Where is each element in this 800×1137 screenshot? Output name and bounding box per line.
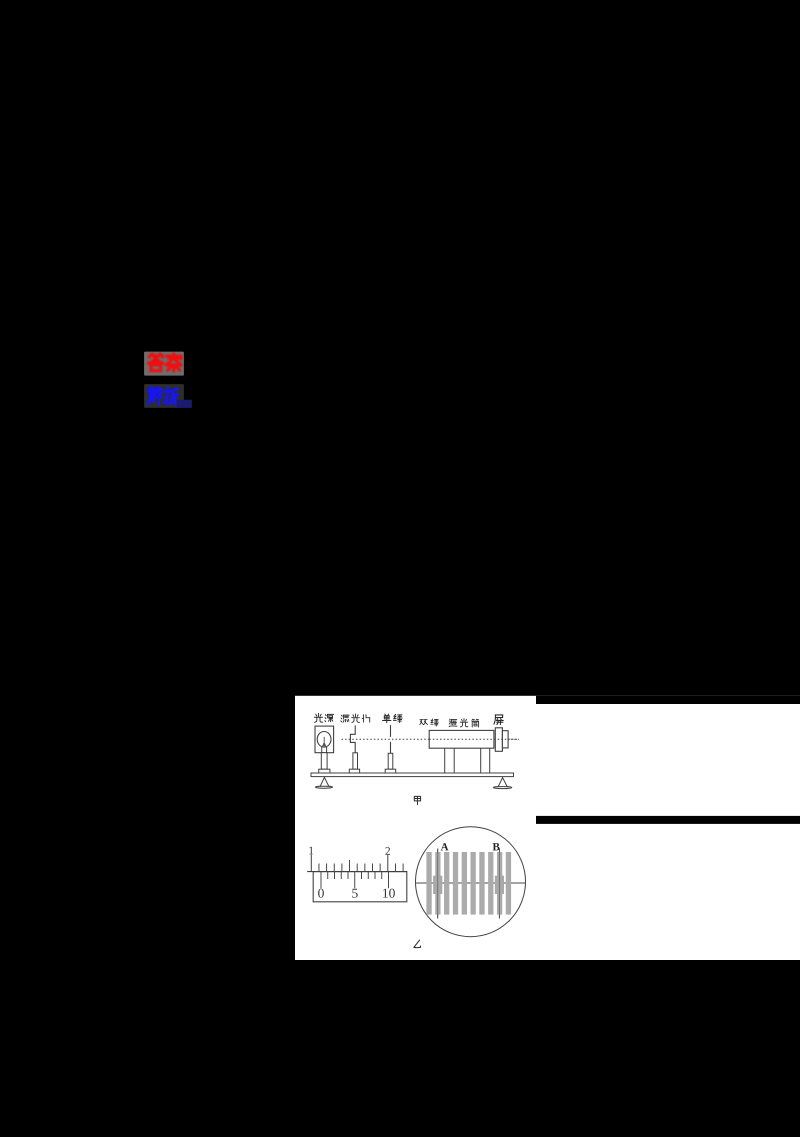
svg-text:0: 0 [318, 886, 325, 901]
ruler slider box [313, 872, 407, 902]
right foot pad [493, 786, 511, 788]
svg-text:A: A [441, 841, 449, 853]
main scale number 1 [308, 845, 314, 857]
bulb filament [322, 742, 327, 747]
black strip top-right of panel [536, 696, 800, 704]
eyepiece field circle [416, 827, 526, 937]
svg-text:5: 5 [352, 886, 359, 901]
analysis button blue text [148, 387, 179, 404]
vernier ticks [320, 872, 322, 889]
vernier number 10 [382, 886, 396, 901]
filter plate [350, 725, 355, 752]
label jia [414, 796, 420, 804]
main scale mm ticks [318, 864, 320, 872]
main scale tick 2cm tall [387, 855, 389, 872]
label guangyuan (light source) [314, 713, 322, 722]
answer button gray box [144, 352, 184, 376]
light source box [315, 726, 334, 753]
svg-text:2: 2 [385, 846, 391, 858]
optical axis dots over tube [429, 738, 519, 740]
slit stand base [385, 769, 396, 773]
label yi [414, 940, 421, 948]
vernier number 5 [352, 886, 359, 901]
vernier number 0 [318, 886, 325, 901]
svg-text:10: 10 [382, 886, 396, 901]
shield tube body [429, 730, 494, 748]
bulb neck [321, 747, 323, 753]
shield tube leg right [480, 748, 482, 773]
marker line A [437, 849, 439, 919]
label lüguangpian (filter) [341, 715, 349, 722]
filter stand column [353, 753, 358, 769]
light source bulb [317, 732, 331, 748]
single slit plate lower [390, 742, 392, 754]
single slit plate upper [390, 725, 392, 737]
marker blob A [433, 876, 442, 894]
analysis button dark box [144, 384, 184, 408]
screen end cap [502, 731, 508, 748]
main scale number 2 [385, 846, 391, 858]
ruler main scale line [307, 871, 407, 873]
label zheguangtong (shield tube) [449, 719, 457, 726]
main scale tick 1cm tall [310, 855, 312, 872]
label B [493, 841, 501, 853]
answer button red text [148, 354, 181, 371]
navy tab [177, 400, 192, 408]
interference fringes [426, 852, 511, 915]
label danfeng (single slit) [383, 714, 391, 723]
right foot cone [498, 778, 507, 787]
left foot pad [316, 786, 333, 788]
marker blob B [495, 876, 504, 894]
label A [441, 841, 449, 853]
filter stand base [349, 769, 359, 773]
label shuangfeng (double slit) [420, 719, 428, 724]
shield tube leg left [444, 748, 446, 773]
left foot cone [320, 777, 329, 786]
light source stand column [321, 753, 327, 770]
light source stand base [319, 769, 330, 773]
screen plate [495, 728, 502, 752]
black divider bar right of panel [536, 816, 800, 824]
marker line B [498, 849, 500, 919]
optical bench rail [311, 773, 514, 777]
label ping (screen) [494, 715, 503, 725]
crosshair horizontal line [416, 882, 526, 884]
optical axis dotted line [342, 738, 519, 740]
svg-text:B: B [493, 841, 501, 853]
white figure panel [295, 696, 800, 960]
slit stand column [388, 753, 393, 769]
svg-text:1: 1 [308, 845, 314, 857]
